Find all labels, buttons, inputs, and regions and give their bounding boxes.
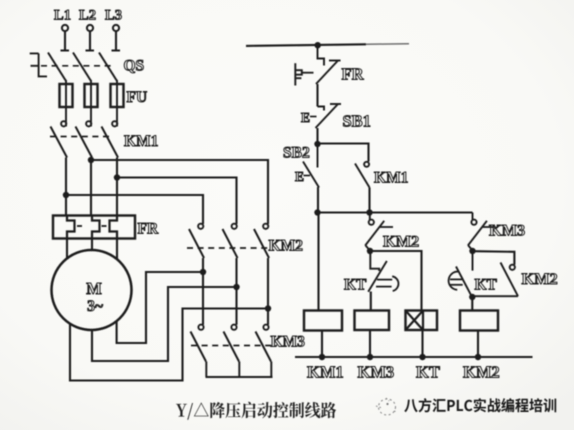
node above KM2 coil — [469, 294, 475, 300]
contactor KM2 aux NO self-hold — [473, 251, 558, 296]
coil KM3 — [355, 311, 390, 331]
svg-text:KM1: KM1 — [124, 133, 158, 150]
contactor KM2 main contacts — [187, 224, 303, 258]
contactor KM1 main contacts — [50, 121, 158, 157]
wire KM2 pole2 down — [235, 258, 237, 287]
node KM2 pole2 junction — [233, 284, 239, 290]
wire KM2 pole1 to motor W2 — [117, 272, 203, 343]
node control rail tap — [315, 42, 321, 48]
svg-text:QS: QS — [124, 58, 145, 75]
svg-text:KM2: KM2 — [383, 232, 419, 251]
thermal overload relay FR heater box — [53, 216, 159, 239]
wire to KM1 aux branch — [318, 144, 369, 162]
svg-text:3~: 3~ — [87, 298, 103, 315]
wire KM1 aux down — [368, 188, 370, 214]
wire to KM1 coil — [317, 213, 319, 311]
time relay KT NO delayed contact — [449, 251, 498, 297]
svg-text:FU: FU — [127, 89, 148, 106]
svg-text:KM1: KM1 — [307, 363, 344, 382]
svg-text:E: E — [301, 110, 310, 125]
wire KT NC to KM3 coil — [370, 292, 372, 311]
svg-text:E: E — [295, 169, 304, 184]
caption Y/delta reduced-voltage starting control circuit — [176, 402, 336, 420]
svg-text:M: M — [86, 279, 102, 298]
svg-text:SB1: SB1 — [343, 112, 371, 131]
svg-text:KT: KT — [475, 277, 498, 294]
wire SB2 down — [317, 187, 319, 213]
wire SB1 to node — [316, 128, 318, 144]
node branch rail mid — [366, 209, 372, 215]
svg-text:FR: FR — [138, 221, 159, 238]
node KM2 pole1 junction — [200, 269, 206, 275]
contactor KM2 NC interlock — [365, 213, 419, 251]
motor M 3~ — [52, 250, 132, 330]
time relay KT NC delayed contact — [344, 251, 398, 294]
node below KM3 NC — [469, 248, 475, 254]
contactor KM3 NC interlock — [468, 213, 525, 251]
wire KM2 coil down — [477, 331, 479, 358]
wire FR to motor W1 — [116, 239, 118, 260]
terminal L3 — [105, 8, 122, 32]
wire KM2 pole1 down — [202, 258, 204, 272]
svg-text:KM3: KM3 — [358, 363, 395, 382]
wire FR to SB1 — [316, 84, 318, 107]
disconnect switch QS — [30, 51, 144, 82]
svg-text:SB2: SB2 — [283, 145, 310, 162]
contactor KM1 aux NO contact — [355, 162, 408, 188]
wire KM2 pole3 down — [267, 258, 269, 309]
svg-text:L3: L3 — [105, 8, 122, 24]
watermark text bafanghui PLC training — [404, 398, 556, 412]
wire KM3 coil down — [369, 330, 371, 357]
node junction pole3 to KM2 — [114, 174, 237, 224]
svg-text:KM3: KM3 — [271, 334, 306, 351]
fuses FU — [60, 80, 148, 127]
svg-text:L2: L2 — [79, 8, 96, 24]
wire KM2 pole1 to KM3 — [202, 272, 204, 325]
wire to KM2 coil — [471, 297, 473, 311]
svg-text:KM3: KM3 — [489, 221, 525, 240]
wire KM1 pole3 down — [116, 158, 118, 216]
svg-text:KM2: KM2 — [269, 238, 304, 255]
wire KM1 pole2 down — [90, 158, 92, 216]
svg-text:FR: FR — [342, 65, 365, 84]
wire L1 down to QS — [64, 31, 66, 50]
control power rail bottom — [295, 354, 533, 360]
node SB1 bottom — [314, 141, 320, 147]
branch rail — [318, 212, 473, 214]
wire KM2 pole3 to KM3 — [267, 309, 269, 325]
wire KT coil down — [421, 330, 423, 357]
coil KM2 — [460, 311, 498, 331]
wire FR to motor V1 — [91, 239, 93, 251]
node junction pole1 to KM2 — [63, 192, 203, 224]
wire KM2 pole2 to KM3 — [235, 287, 237, 325]
svg-text:KM2: KM2 — [522, 269, 558, 288]
start button SB2 NO — [283, 144, 319, 188]
wire KM1 pole1 down — [65, 158, 67, 216]
svg-text:KM1: KM1 — [374, 170, 408, 187]
terminal L2 — [79, 8, 96, 32]
wire KM2 pole3 to motor V2 — [70, 309, 268, 381]
node branch rail left — [314, 209, 320, 215]
wire KM1 coil down — [321, 331, 323, 358]
svg-text:KT: KT — [344, 277, 367, 294]
svg-text:KT: KT — [416, 363, 440, 382]
wire FR to motor U1 — [66, 239, 68, 260]
coil KT — [406, 311, 438, 331]
svg-text:L1: L1 — [54, 8, 71, 24]
node KM2 pole3 junction — [265, 305, 271, 311]
wire to KT coil — [370, 251, 422, 311]
stop button SB1 NC — [301, 104, 371, 131]
svg-text:KM2: KM2 — [463, 363, 500, 382]
node junction pole2 to KM2 — [88, 157, 268, 224]
wire L2 down to QS — [89, 31, 91, 50]
star point bar — [206, 376, 273, 378]
contactor KM3 star contacts — [191, 325, 306, 377]
control power rail top — [246, 44, 409, 46]
thermal relay FR NC contact — [295, 45, 364, 86]
wire KM2 pole2 to motor U2 — [92, 287, 237, 361]
terminal L1 — [54, 8, 71, 32]
coil KM1 — [304, 311, 342, 331]
node below KM2 NC — [367, 248, 373, 254]
wire L3 down to QS — [115, 31, 117, 50]
watermark logo — [376, 398, 397, 415]
